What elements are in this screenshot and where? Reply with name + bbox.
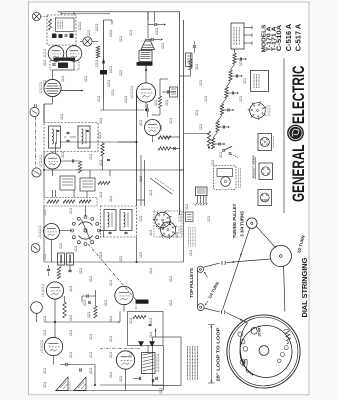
- arrow B+ feed: [81, 89, 83, 91]
- value label 51: [89, 334, 91, 340]
- value label 43: [43, 316, 45, 322]
- wire B+ bus pair b: [183, 20, 185, 215]
- value label 3: [119, 36, 121, 42]
- cord arrow 3: [240, 254, 242, 256]
- wire long vertical x136: [136, 93, 138, 206]
- wire w23: [36, 313, 38, 322]
- electrolytic hatch: [195, 203, 197, 206]
- svg-text:C-517 A: C-517 A: [295, 24, 303, 52]
- value label 74: [239, 96, 241, 102]
- V5 label 3V4: [40, 340, 42, 353]
- value label 72: [239, 60, 241, 66]
- square socket A: [258, 134, 272, 151]
- ladder resistor R32: [225, 87, 228, 98]
- value label 81: [111, 90, 113, 96]
- ladder arrow a32: [237, 92, 239, 94]
- grid resistor R1: [63, 302, 66, 318]
- drum inner cord loop2: [240, 323, 251, 375]
- wire w60: [184, 133, 210, 135]
- square socket C: [258, 190, 272, 206]
- speaker frame bar: [137, 62, 153, 66]
- svg-text:3 3/4 TURNS: 3 3/4 TURNS: [240, 211, 245, 237]
- mixer tube V2b: [115, 286, 133, 304]
- output transformer T5: [139, 51, 152, 62]
- loop antenna triangle A: [56, 377, 68, 391]
- wire w56: [117, 321, 120, 323]
- tube chart box 4BU8: [231, 23, 244, 49]
- dash linkage gang b: [135, 300, 137, 311]
- value label 54: [69, 352, 71, 358]
- oscillator block labels: [57, 21, 59, 30]
- wire w2: [147, 12, 149, 39]
- wire w66: [160, 78, 168, 80]
- wire x136 lower: [136, 237, 138, 262]
- socket 5AQ5 label: [267, 105, 269, 116]
- value label 67: [195, 64, 197, 70]
- tube V4A triode: [48, 46, 64, 62]
- cord P3 to drum: [284, 266, 285, 311]
- tuning gang rotor ring: [98, 229, 101, 232]
- wire w67: [180, 169, 184, 171]
- ladder resistor R30: [233, 53, 236, 64]
- coupling capacitor C17: [193, 45, 196, 47]
- cord P2-P3: [256, 226, 276, 248]
- ladder arrow a30: [245, 58, 247, 60]
- enclosure arrow: [155, 330, 157, 337]
- rectifier V5 tube: [44, 79, 61, 96]
- wire V5 plate arrow: [61, 90, 81, 92]
- speaker plug label: [238, 168, 240, 188]
- wire w64: [152, 136, 154, 143]
- value label 78: [207, 216, 209, 222]
- drum anchor holes: [238, 332, 243, 337]
- wire V5 top: [52, 70, 54, 79]
- wire w52: [109, 170, 111, 176]
- value label 10: [124, 96, 126, 103]
- V3 label 1U4 IF AMP: [39, 155, 41, 167]
- value label 24: [139, 176, 141, 182]
- wire w19: [103, 231, 105, 238]
- wire w46: [43, 231, 46, 233]
- svg-text:DIAL STRINGING: DIAL STRINGING: [300, 257, 309, 317]
- drum inner cord loop: [240, 326, 292, 378]
- ladder wire w31: [231, 75, 237, 77]
- value label 13: [99, 118, 101, 124]
- wire IF row: [64, 136, 66, 138]
- wire w18: [99, 230, 104, 232]
- dash linkage gang: [88, 244, 136, 300]
- ladder arrow a34: [228, 126, 230, 128]
- svg-text:TOP PULLEYS: TOP PULLEYS: [189, 268, 194, 298]
- value label 71: [199, 124, 201, 130]
- value label 5: [161, 43, 163, 49]
- tube socket dark bar: [54, 58, 76, 61]
- ladder resistor R35: [211, 138, 214, 149]
- V7 label 3V4 POWER AMP: [130, 86, 132, 99]
- value label 87: [43, 60, 45, 66]
- value label 57: [129, 352, 131, 358]
- loop label: [69, 381, 71, 390]
- coil row mark C: [70, 34, 74, 39]
- speaker plug inner: [217, 169, 233, 177]
- resistor R5: [47, 200, 59, 203]
- T2 second can: [78, 126, 90, 148]
- capacitor C27: [52, 63, 55, 65]
- resistor shield strip: [44, 198, 97, 207]
- wire w50: [165, 136, 180, 138]
- resistor R12: [189, 59, 192, 70]
- wire w37: [190, 70, 192, 76]
- cord P1b right: [204, 308, 220, 312]
- resistor R13: [101, 143, 104, 156]
- value label 9: [107, 80, 109, 87]
- electrolytic can C24: [196, 187, 208, 196]
- enclosure capacitor C38: [155, 377, 157, 380]
- pilot lamp P2: [83, 37, 92, 46]
- arrow grid return: [161, 38, 163, 40]
- gang split arrows: [82, 220, 91, 241]
- switch link dashes: [231, 154, 238, 158]
- V6 cathode resistor R11: [158, 147, 171, 150]
- value label 85: [61, 76, 63, 82]
- V1 label 1R5 CONVERTER: [41, 284, 43, 297]
- wire V3 grid: [52, 152, 54, 154]
- value label 0: [78, 22, 80, 30]
- wire w29: [123, 305, 125, 312]
- chart box NC: [251, 71, 269, 92]
- 1/4 TURN arrow up: [205, 273, 208, 278]
- junction dots: [136, 141, 138, 143]
- value label 77: [185, 204, 187, 210]
- ladder resistor R34: [216, 121, 219, 132]
- stringing instruction note: [187, 346, 189, 380]
- output tube V5b: [44, 337, 62, 355]
- value label 62: [119, 376, 121, 382]
- value label 68: [199, 80, 201, 86]
- wire box to tubes: [55, 44, 57, 47]
- resistor R2: [57, 267, 60, 279]
- GE monogram medallion: [287, 125, 304, 142]
- filament choke bar: [136, 300, 149, 304]
- value label 11: [154, 100, 156, 106]
- ladder capacitor C30: [239, 58, 241, 61]
- value label 82: [119, 70, 121, 76]
- junction dot: [208, 147, 210, 149]
- wire w27: [95, 296, 97, 306]
- diagonal wire b: [155, 178, 174, 191]
- drum rim groove: [229, 317, 298, 386]
- drum spring: [284, 329, 291, 343]
- value label 75: [211, 160, 213, 166]
- value label 30: [175, 232, 177, 238]
- power tube V7: [136, 83, 155, 102]
- tuning pulley P2: [247, 218, 258, 229]
- chart pin lead 3: [244, 42, 252, 44]
- cord P2 long diagonal: [223, 228, 250, 309]
- speaker voice coil: [145, 39, 147, 42]
- value label 66: [149, 268, 151, 274]
- cord P1a-P1b: [196, 270, 198, 307]
- value label 79: [189, 250, 191, 256]
- wire w14: [52, 169, 54, 176]
- coil row resistor: [49, 19, 52, 30]
- value label 69: [204, 96, 206, 102]
- wire w44: [104, 19, 113, 21]
- wire w51: [171, 148, 180, 150]
- wire w61: [140, 155, 142, 206]
- resistor R22: [96, 46, 100, 58]
- ladder wire w30: [235, 58, 241, 60]
- value label 55: [89, 352, 91, 358]
- oscillator block inner box: [56, 18, 75, 32]
- value label 26: [109, 196, 111, 202]
- ladder link wire 1: [227, 81, 231, 87]
- svg-text:28" LOOP TO LOOP: 28" LOOP TO LOOP: [216, 328, 221, 382]
- ladder capacitor C35: [218, 143, 220, 146]
- svg-text:C-510A: C-510A: [276, 24, 283, 51]
- T2 first can: [49, 126, 61, 148]
- dimension line 28in: [210, 325, 212, 383]
- wire w4: [52, 97, 54, 104]
- electrolytic leads: [197, 196, 199, 204]
- drum end anchor: [240, 360, 245, 365]
- padder capacitor C4: [47, 268, 50, 270]
- loop antenna triangle B: [74, 377, 86, 391]
- separator rule: [283, 58, 285, 213]
- drum outer rim: [227, 315, 300, 388]
- wire w17: [85, 206, 87, 217]
- wire w8: [43, 170, 45, 198]
- wire w26: [64, 296, 66, 302]
- svg-text:END: END: [242, 359, 246, 367]
- V6 plate resistor R10: [158, 136, 171, 139]
- pulley P1b: [197, 304, 204, 311]
- value label 41: [83, 300, 85, 306]
- resistor R16 diagonal: [207, 131, 210, 146]
- wire lamp P2 taps: [80, 41, 83, 43]
- value label 65: [169, 276, 171, 282]
- antenna terminal: [31, 302, 43, 314]
- wire x163: [163, 346, 165, 386]
- wire bus x103: [103, 20, 105, 99]
- wire w65: [159, 79, 161, 96]
- dash-dot AVC bus: [100, 348, 140, 350]
- coupling network shield: [50, 61, 79, 71]
- resistor R9: [78, 161, 81, 173]
- wire w25: [54, 322, 56, 337]
- ladder link wire 3: [218, 115, 223, 121]
- value label 37: [79, 268, 81, 274]
- coil row mark A: [52, 34, 57, 39]
- svg-text:TUNING PULLEY: TUNING PULLEY: [232, 204, 237, 239]
- wire row 322: [44, 321, 120, 323]
- plate bypass C28: [166, 90, 168, 93]
- value label 42: [104, 300, 106, 306]
- capacitor C5: [68, 269, 71, 271]
- resistor R24: [133, 315, 146, 318]
- T1 can B: [120, 210, 132, 231]
- wire w48: [152, 114, 160, 116]
- wire w31: [125, 369, 127, 390]
- resistor R7: [79, 200, 91, 203]
- chart pin lead 1: [244, 27, 252, 29]
- V6 screen caps: [146, 108, 148, 111]
- couplate PC1: [142, 353, 156, 374]
- value label 32: [74, 246, 76, 252]
- wire w32: [53, 356, 55, 365]
- value label 21: [169, 118, 171, 124]
- wire w42: [93, 295, 96, 297]
- ladder wire w35: [213, 143, 219, 145]
- selenium rectifier X1: [139, 342, 144, 347]
- screen resistor box: [186, 53, 193, 67]
- wire w63: [137, 199, 145, 201]
- svg-text:SOCKET VIEWS: SOCKET VIEWS: [252, 155, 256, 178]
- wire x183 lower: [183, 215, 185, 262]
- ladder capacitor C33: [227, 109, 229, 112]
- couplate label: [156, 354, 158, 372]
- value label 29: [149, 230, 151, 236]
- wire w15: [73, 190, 75, 198]
- AVC capacitor C35: [138, 377, 140, 380]
- tube socket view XV2: [160, 222, 175, 237]
- V2 label: [38, 226, 40, 238]
- output transformer T4 shield box: [47, 15, 76, 45]
- value label 40: [69, 286, 71, 292]
- converter tube V2: [44, 224, 60, 240]
- ladder resistor R31: [229, 70, 232, 81]
- pulley P1a: [197, 266, 203, 272]
- oscillator coil L2: [58, 253, 65, 265]
- svg-text:ELECTRIC: ELECTRIC: [289, 66, 308, 125]
- ladder capacitor C34: [222, 126, 224, 129]
- switch detail box: [186, 212, 194, 222]
- osc tube V1b: [116, 351, 134, 369]
- wire x55 column: [55, 190, 57, 197]
- value label 19: [139, 120, 141, 126]
- cord splice to drum: [226, 313, 247, 323]
- wire w53: [89, 170, 91, 178]
- rect loop wires: [128, 312, 164, 346]
- wire B+ bus pair: [179, 12, 181, 215]
- value label 53: [149, 332, 151, 338]
- cord P1a right: [203, 263, 219, 267]
- wire w6: [43, 104, 45, 123]
- oscillator tube V1: [46, 282, 63, 299]
- V5 label: [39, 82, 41, 94]
- wire w16: [86, 191, 88, 198]
- T2 trimmer C9: [86, 129, 89, 131]
- antenna jack J3: [31, 244, 40, 253]
- ladder link wire 0: [231, 64, 235, 70]
- selenium rectifier X2: [150, 342, 155, 347]
- value label 46: [109, 316, 111, 322]
- B+ dropping box: [170, 87, 178, 97]
- wire w9: [43, 206, 45, 262]
- T1 can A: [104, 210, 116, 231]
- wire w40: [73, 44, 75, 47]
- gang shaft dot: [84, 229, 87, 232]
- wire w68: [43, 104, 45, 123]
- value label 31: [59, 243, 61, 249]
- IF transformer T2 shield: [44, 123, 98, 152]
- value label 60: [109, 372, 111, 378]
- ladder wire w33: [222, 109, 228, 111]
- value label 4: [155, 28, 157, 35]
- wire w59: [130, 390, 164, 392]
- value label 49: [43, 330, 45, 336]
- value label 16: [61, 152, 63, 158]
- wire row 385: [100, 384, 163, 386]
- value label 33: [43, 254, 45, 260]
- wire w13: [55, 142, 57, 153]
- value label 48: [149, 318, 151, 324]
- value label 7: [109, 66, 111, 73]
- socket dashed outline: [154, 211, 182, 237]
- wire T5 to V7: [145, 66, 147, 83]
- 1/4 TURN arrow down: [206, 301, 209, 305]
- value label 50: [69, 330, 71, 336]
- AVC filter box B: [80, 178, 95, 191]
- cord arrow 2: [240, 319, 242, 321]
- ladder capacitor C32: [231, 92, 233, 95]
- wire w47: [159, 108, 161, 115]
- svg-text:GENERAL: GENERAL: [289, 145, 308, 203]
- value label 18: [99, 160, 101, 166]
- wire w54: [36, 104, 38, 107]
- capacitor C3: [88, 301, 90, 304]
- phono jack J1: [30, 107, 39, 116]
- wire w3: [154, 12, 156, 22]
- wire w36: [190, 53, 192, 59]
- wire w20: [51, 240, 53, 263]
- capacitor C15: [151, 38, 153, 41]
- cord splice 1: [222, 261, 226, 265]
- value label 64: [169, 300, 171, 306]
- value label 63: [159, 388, 161, 394]
- value label 70: [195, 110, 197, 116]
- wire w10: [103, 99, 105, 110]
- coil row mark B: [59, 34, 63, 38]
- wire w35: [234, 49, 236, 53]
- dial lamp P1: [32, 12, 40, 20]
- value label 59: [89, 368, 91, 374]
- wire w0: [60, 12, 62, 15]
- wire w24: [54, 299, 56, 322]
- speaker plug circle: [221, 177, 231, 187]
- wire w55: [52, 190, 54, 198]
- ladder arrow a33: [232, 109, 234, 111]
- output stage enclosure box: [153, 337, 182, 386]
- AVC filter box A: [60, 176, 75, 190]
- value label 76: [219, 152, 221, 158]
- IF transformer T1 shield: [101, 206, 137, 237]
- wire bottom row: [55, 390, 130, 392]
- resistor R8: [98, 181, 110, 184]
- wire w49: [136, 93, 138, 110]
- arrow AVC line: [164, 23, 166, 25]
- cord splice 2: [222, 310, 226, 314]
- square socket A label: [273, 136, 275, 149]
- value label 84: [87, 30, 89, 36]
- IF amp tube V3: [45, 153, 61, 169]
- wire w43: [145, 66, 147, 70]
- tube V4B triode: [66, 46, 82, 62]
- wire w57: [119, 312, 121, 323]
- value label 17: [89, 154, 91, 160]
- wire w30: [147, 346, 149, 353]
- capacitor C13: [107, 158, 110, 160]
